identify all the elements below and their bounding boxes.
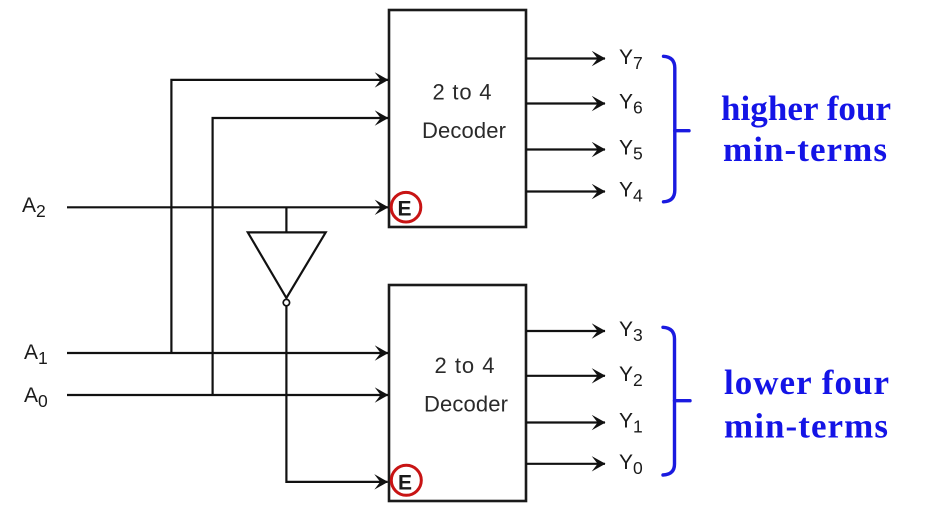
svg-text:2 to 4: 2 to 4 [433, 80, 492, 105]
wire output Y6 [526, 102, 605, 104]
wire output Y4 [526, 190, 605, 192]
decoder U1 box (upper 2-to-4 decoder) [389, 10, 526, 227]
wire output Y2 [526, 375, 605, 377]
blue brace (higher four min-terms) [664, 56, 675, 202]
svg-text:A2: A2 [22, 194, 46, 221]
svg-text:min-terms: min-terms [723, 130, 887, 169]
svg-text:A1: A1 [24, 341, 48, 368]
svg-text:higher four: higher four [721, 89, 891, 128]
wire output Y0 [526, 463, 605, 465]
blue brace nub (higher) [675, 129, 689, 132]
wire output Y7 [526, 57, 605, 59]
wire A0 to U2 input [67, 394, 388, 396]
svg-text:Y2: Y2 [619, 363, 643, 390]
svg-text:Y3: Y3 [619, 318, 643, 345]
blue brace (lower four min-terms) [663, 327, 675, 475]
wire output Y5 [526, 148, 605, 150]
decoder U2 box (lower 2-to-4 decoder) [389, 285, 526, 501]
svg-text:Decoder: Decoder [424, 391, 508, 416]
wire inverter output to U2 enable [286, 306, 387, 482]
svg-text:Decoder: Decoder [422, 118, 506, 143]
inverter triangle [248, 232, 326, 298]
red circle around U2 enable E [391, 465, 421, 495]
wire output Y1 [526, 421, 605, 423]
wire A0 to U1 input (vertical from A0 line up, horizontal into U1 pin 2) [213, 118, 388, 395]
svg-text:E: E [398, 471, 412, 494]
svg-text:A0: A0 [24, 384, 48, 411]
wire A2 to U1 enable [67, 206, 388, 208]
svg-text:Y7: Y7 [619, 46, 643, 73]
svg-text:Y4: Y4 [619, 179, 643, 206]
red circle around U1 enable E [391, 192, 421, 222]
svg-text:Y6: Y6 [619, 90, 643, 117]
wire A1 to U2 input [67, 352, 388, 354]
svg-text:min-terms: min-terms [724, 407, 888, 446]
wire output Y3 [526, 330, 605, 332]
wire A1 to U1 input (vertical from A1 line up, horizontal into U1 pin 1) [171, 80, 388, 353]
svg-text:lower four: lower four [724, 363, 889, 402]
svg-text:E: E [397, 198, 411, 221]
blue brace nub (lower) [675, 399, 691, 402]
svg-text:2 to 4: 2 to 4 [435, 353, 495, 378]
inverter bubble [283, 299, 289, 305]
wire stub A2 to inverter input [285, 207, 287, 232]
svg-text:Y5: Y5 [619, 137, 643, 164]
svg-text:Y0: Y0 [619, 451, 643, 478]
svg-text:Y1: Y1 [619, 410, 643, 437]
